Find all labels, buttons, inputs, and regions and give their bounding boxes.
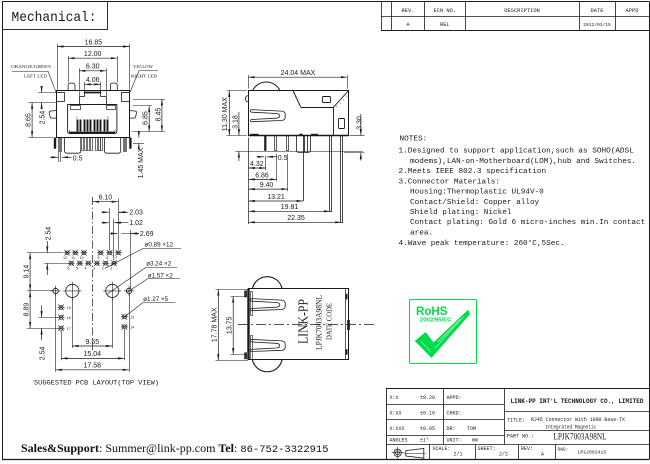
- svg-text:6.30: 6.30: [86, 64, 100, 71]
- front view: left side EMI tab: [49, 111, 56, 119]
- svg-text:6.85: 6.85: [143, 111, 150, 125]
- svg-text:5: 5: [76, 267, 78, 271]
- side view: bottom feet pads: [250, 134, 259, 136]
- title block: tolerance texts: [390, 395, 479, 443]
- label ORANGE/GREEN LEFT LED: [11, 64, 56, 92]
- dim 3.30: [344, 114, 365, 161]
- dim 2.69: [110, 231, 154, 238]
- svg-text:17: 17: [67, 327, 71, 331]
- svg-text:2002/95/EC: 2002/95/EC: [420, 318, 452, 324]
- svg-text:Housing:Thermoplastic UL94V-0: Housing:Thermoplastic UL94V-0: [410, 189, 544, 197]
- svg-text:9: 9: [97, 256, 99, 260]
- svg-text:17.78 MAX: 17.78 MAX: [211, 307, 218, 342]
- svg-text:4.32: 4.32: [250, 161, 264, 168]
- svg-text:9.14: 9.14: [23, 265, 30, 279]
- dim 17.78 MAX: [211, 289, 248, 360]
- notes text block: [399, 136, 646, 248]
- svg-text:Sales&Support: Summer@link-pp.: Sales&Support: Summer@link-pp.com Tel: 8…: [21, 441, 329, 456]
- front view: right side EMI tab: [130, 111, 137, 119]
- pcb layout: vertical centerline: [92, 197, 94, 350]
- svg-text:REL: REL: [440, 22, 449, 28]
- svg-text:17.58: 17.58: [84, 363, 102, 370]
- svg-text:15: 15: [67, 306, 71, 310]
- side view: vent hole on back wall: [339, 119, 345, 129]
- svg-text:SUGGESTED PCB LAYOUT(TOP VIEW): SUGGESTED PCB LAYOUT(TOP VIEW): [34, 379, 159, 386]
- RoHS checkmark: [415, 310, 471, 358]
- svg-text:13: 13: [130, 315, 134, 319]
- svg-text:15.04: 15.04: [84, 351, 102, 358]
- dim 12.00: [68, 51, 117, 83]
- svg-text:ORANGE/GREEN: ORANGE/GREEN: [11, 64, 52, 69]
- side view: vent hole on recess: [323, 97, 331, 103]
- top view: rear edge details: [346, 289, 350, 360]
- title block: projection symbol: [392, 447, 426, 459]
- svg-text:4: 4: [85, 267, 87, 271]
- svg-text:11.30 MAX: 11.30 MAX: [222, 97, 229, 131]
- svg-text:9.40: 9.40: [260, 182, 274, 189]
- svg-text:10: 10: [80, 256, 84, 260]
- callout 0.89 x12: [105, 241, 181, 268]
- svg-text:Contact/Shield: Copper alloy: Contact/Shield: Copper alloy: [410, 199, 540, 207]
- side view: front edge bump: [245, 96, 248, 103]
- dim 4.06: [84, 77, 101, 92]
- svg-text:ANGLES: ANGLES: [390, 437, 408, 443]
- front view: contact comb (8 contacts): [76, 116, 109, 132]
- svg-text:1.Designed to support applicat: 1.Designed to support application,such a…: [399, 147, 635, 155]
- svg-text:2.54: 2.54: [40, 111, 47, 125]
- svg-text:1: 1: [110, 267, 112, 271]
- callout 1.27 x5: [123, 296, 175, 318]
- svg-text:LINK-PP INT'L TECHNOLOGY CO.,: LINK-PP INT'L TECHNOLOGY CO., LIMITED: [511, 398, 644, 405]
- front view: right LED window: [122, 93, 130, 102]
- svg-text:ø3.24 ×2: ø3.24 ×2: [146, 261, 172, 268]
- dim 2.54 (bottom left): [39, 306, 59, 361]
- dim 22.35: [248, 215, 341, 222]
- side view: internal wall: [333, 107, 335, 135]
- svg-text:3.Connector Materials:: 3.Connector Materials:: [399, 178, 501, 186]
- pcb layout: big mounting holes 3.24 x2: [66, 284, 79, 297]
- svg-text:Integrated Magnetic: Integrated Magnetic: [545, 424, 596, 431]
- dim 8.45 (right): [132, 99, 166, 132]
- top view: inner shield strips: [251, 292, 253, 316]
- svg-text:TOM: TOM: [467, 426, 476, 432]
- svg-text:Contact plating: Gold 6 micro-: Contact plating: Gold 6 micro-inches min…: [410, 219, 645, 227]
- dim 17.58: [56, 363, 130, 370]
- top view: EMI finger top: [250, 299, 285, 311]
- title block: bottom row: [433, 446, 607, 457]
- svg-text:11: 11: [71, 256, 75, 260]
- svg-text:LEFT LED: LEFT LED: [24, 74, 47, 79]
- dim 8.65 (left height): [26, 103, 57, 138]
- svg-text:7: 7: [115, 256, 117, 260]
- svg-text:LINK-PP: LINK-PP: [296, 299, 311, 344]
- dim 11.30 MAX: [222, 91, 247, 136]
- title block table: [386, 388, 649, 460]
- svg-text:6: 6: [68, 267, 70, 271]
- svg-text:±0.20: ±0.20: [420, 395, 435, 401]
- svg-text:LPJK7003A98NL: LPJK7003A98NL: [554, 433, 607, 443]
- side view: transformer dome: [253, 82, 280, 91]
- dim 1.02: [102, 220, 144, 227]
- svg-text:4.06: 4.06: [86, 77, 100, 84]
- svg-text:DESCRIPTION: DESCRIPTION: [504, 8, 540, 14]
- svg-text:2.54: 2.54: [45, 227, 52, 241]
- front view: left LED window: [57, 93, 65, 102]
- svg-text:8: 8: [106, 256, 108, 260]
- svg-text:Mechanical:: Mechanical:: [12, 10, 97, 26]
- dim 8.89: [23, 291, 58, 329]
- svg-text:14: 14: [130, 326, 134, 330]
- label YELLOW RIGHT LED: [130, 64, 158, 93]
- svg-text:2/2: 2/2: [499, 452, 508, 458]
- svg-text:TITLE:: TITLE:: [507, 417, 525, 423]
- top view: centerline: [238, 324, 377, 326]
- side view: pins below body: [264, 136, 342, 223]
- side view: pcb surface line: [235, 151, 363, 153]
- pcb layout: holes 1.57 x2: [53, 288, 58, 293]
- pcb layout: pin holes row 2 (pins 6-1): [68, 260, 118, 270]
- svg-text:ø0.89 ×12: ø0.89 ×12: [145, 241, 174, 248]
- svg-text:mm: mm: [472, 437, 478, 443]
- svg-text:X:X: X:X: [390, 395, 399, 401]
- dim 9.40: [248, 154, 287, 191]
- pcb layout: shield holes 1.27 x5 (pins 15,16,17,13,14): [58, 304, 135, 331]
- svg-text:CHKD:: CHKD:: [447, 411, 462, 417]
- svg-text:NOTES:: NOTES:: [400, 136, 428, 144]
- front view: top left light-pipe bump: [68, 83, 75, 90]
- svg-text:8.65: 8.65: [26, 113, 33, 127]
- svg-text:2.03: 2.03: [129, 210, 143, 217]
- svg-text:UNIT:: UNIT:: [447, 437, 462, 443]
- svg-text:±1°: ±1°: [420, 437, 429, 443]
- svg-text:8.89: 8.89: [23, 303, 30, 317]
- svg-text:DR:: DR:: [447, 426, 456, 432]
- svg-text:ø1.27 ×5: ø1.27 ×5: [143, 296, 169, 303]
- svg-text:3.30: 3.30: [356, 116, 363, 130]
- svg-text:LP12082415: LP12082415: [578, 450, 607, 456]
- front view: connector body outline: [57, 91, 130, 138]
- callout 1.57 x2: [128, 272, 181, 292]
- dim 9.14: [23, 253, 52, 291]
- dim 4.32: [248, 156, 265, 170]
- svg-text:YELLOW: YELLOW: [133, 64, 154, 69]
- dim 3.18: [232, 112, 239, 161]
- dim 0.5 (pin width): [257, 155, 288, 162]
- svg-text:1.45 MAX: 1.45 MAX: [138, 147, 145, 178]
- svg-text:X:XXX: X:XXX: [390, 426, 405, 432]
- svg-text:0.5: 0.5: [73, 155, 83, 162]
- dim 15.04: [61, 351, 124, 358]
- top view: transformer dome arcs: [252, 277, 282, 289]
- dim 0.5 (leg gap): [50, 152, 83, 162]
- svg-text:DATE: DATE: [591, 8, 604, 14]
- svg-text:0.5: 0.5: [278, 155, 288, 162]
- dim 1.45 MAX: [133, 132, 145, 179]
- dim 9.65: [72, 339, 112, 346]
- front view: top right light-pipe bump: [110, 83, 117, 90]
- dim 6.86: [248, 154, 276, 181]
- svg-text:16.85: 16.85: [85, 39, 103, 46]
- svg-text:RJ45 Connector With 1000 Base-: RJ45 Connector With 1000 Base-TX: [531, 416, 626, 423]
- svg-text:6.86: 6.86: [255, 172, 269, 179]
- front view: opening top-right window: [107, 106, 116, 110]
- svg-text:24.04 MAX: 24.04 MAX: [281, 70, 316, 77]
- svg-text:SCALE:: SCALE:: [433, 446, 451, 452]
- title box "Mechanical:": [3, 2, 108, 30]
- svg-text:PART NO.:: PART NO.:: [507, 433, 534, 439]
- dim 2.03: [102, 210, 144, 217]
- dim 6.30: [79, 64, 107, 97]
- dim 13.75: [226, 296, 246, 354]
- side view: top recess trapezoid: [293, 91, 348, 108]
- svg-text:area.: area.: [410, 230, 433, 238]
- pcb layout: extension lines: [56, 199, 131, 372]
- svg-text:LPJK7003A98NL: LPJK7003A98NL: [315, 295, 324, 350]
- svg-text:RIGHT LED: RIGHT LED: [131, 73, 157, 78]
- svg-text:2.Meets IEEE 802.3 specificati: 2.Meets IEEE 802.3 specification: [399, 168, 547, 176]
- dim 6.10: [93, 195, 118, 202]
- dim 16.85 (front width): [57, 39, 129, 90]
- svg-text:REV:: REV:: [521, 446, 533, 452]
- title block: part no: [507, 433, 607, 443]
- top view: body outline: [249, 289, 349, 360]
- svg-text:2/1: 2/1: [454, 452, 463, 458]
- svg-text:APPD: APPD: [626, 8, 639, 14]
- svg-text:RoHS: RoHS: [416, 305, 448, 318]
- svg-text:SHEET:: SHEET:: [478, 446, 496, 452]
- dim 2.54 rows (top left): [44, 227, 69, 275]
- dim 19.81: [248, 204, 330, 211]
- svg-text:16: 16: [67, 316, 71, 320]
- top view: EMI finger bottom: [250, 339, 285, 351]
- svg-text:6.10: 6.10: [99, 195, 113, 202]
- svg-text:8.45: 8.45: [155, 108, 162, 122]
- svg-text:3.18: 3.18: [232, 115, 239, 129]
- front view: latch slot (top center): [79, 91, 107, 105]
- front view: bottom corner brackets: [70, 130, 75, 132]
- callout 3.24 x2: [107, 261, 177, 295]
- dim 13.21: [248, 194, 303, 201]
- svg-text:2.69: 2.69: [140, 231, 154, 238]
- dim 2.54 (LED offset): [38, 86, 56, 124]
- side view dimension chain base line: [248, 138, 250, 225]
- svg-text:22.35: 22.35: [287, 215, 305, 222]
- svg-text:2012/03/15: 2012/03/15: [583, 22, 611, 28]
- title block: title: [507, 416, 626, 431]
- svg-text:1.02: 1.02: [129, 220, 143, 227]
- dim 24.04 MAX: [248, 70, 347, 89]
- svg-text:9.65: 9.65: [85, 339, 99, 346]
- svg-text:modems),LAN-on-Motherboard(LOM: modems),LAN-on-Motherboard(LOM),hub and …: [410, 158, 636, 166]
- svg-text:±0.10: ±0.10: [420, 411, 435, 417]
- svg-text:DATE CODE: DATE CODE: [325, 303, 334, 340]
- svg-text:12: 12: [63, 256, 67, 260]
- svg-text:REV.: REV.: [402, 8, 415, 14]
- dim 6.85 (right): [133, 106, 152, 132]
- svg-text:X:XX: X:XX: [390, 411, 402, 417]
- svg-text:2: 2: [102, 267, 104, 271]
- svg-text:4.Wave peak temperature: 260°C: 4.Wave peak temperature: 260°C,5Sec.: [399, 239, 565, 248]
- RoHS logo box: [410, 300, 477, 364]
- svg-text:2.54: 2.54: [39, 346, 46, 360]
- svg-text:APPD:: APPD:: [447, 395, 462, 401]
- revision table: [381, 2, 649, 31]
- side view: body outline: [248, 91, 348, 136]
- svg-text:13.21: 13.21: [267, 194, 285, 201]
- sales contact line: [21, 441, 329, 456]
- front view: plug opening: [68, 105, 117, 134]
- side view: EMI spring finger: [250, 110, 285, 122]
- svg-text:ECN NO.: ECN NO.: [433, 8, 456, 14]
- front view: shield legs and solder posts below body: [54, 138, 132, 154]
- pcb layout: pin holes row 1 (pins 12-7): [63, 250, 122, 260]
- svg-text:3: 3: [93, 267, 95, 271]
- svg-text:Shield plating: Nickel: Shield plating: Nickel: [410, 209, 512, 217]
- svg-text:13.75: 13.75: [226, 316, 233, 334]
- svg-text:A: A: [541, 452, 544, 458]
- svg-text:DWG:: DWG:: [558, 447, 569, 453]
- svg-text:12.00: 12.00: [84, 51, 102, 58]
- svg-text:±0.05: ±0.05: [420, 426, 435, 432]
- svg-text:19.81: 19.81: [281, 204, 299, 211]
- front view: opening top-left window: [71, 106, 81, 110]
- top view: front bezel tabs: [244, 291, 247, 298]
